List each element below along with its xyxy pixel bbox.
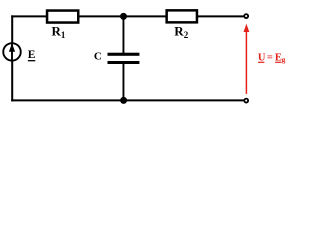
node junction dot bottom [120, 97, 127, 104]
capacitor C bottom plate [108, 61, 140, 64]
resistor R2 [167, 10, 197, 22]
svg-text:R2: R2 [174, 24, 188, 41]
svg-text:g: g [282, 55, 286, 64]
source U1 circle (EMF source E) [3, 43, 21, 61]
wire capacitor branch upper [122, 16, 124, 54]
label E underline [28, 60, 35, 62]
label U underline [258, 61, 264, 63]
voltage arrow U shaft (red) [245, 32, 247, 94]
svg-text:=: = [267, 52, 273, 63]
wire left vertical [11, 15, 13, 101]
terminal bottom right [244, 99, 248, 103]
svg-text:C: C [94, 50, 102, 62]
svg-text:R1: R1 [52, 24, 66, 41]
svg-text:U: U [258, 52, 266, 63]
wire capacitor branch lower [122, 63, 124, 101]
capacitor C top plate [108, 53, 140, 56]
source U1 arrow shaft [11, 43, 13, 61]
svg-text:E: E [28, 49, 36, 61]
voltage arrow U head (red) [244, 24, 250, 32]
source U1 arrowhead [9, 43, 15, 51]
resistor R1 [47, 11, 78, 23]
label E underline (red) [275, 61, 281, 63]
wire bottom [11, 99, 244, 101]
wire top (left corner to right terminal) [11, 15, 244, 17]
node junction dot top [120, 13, 127, 20]
terminal top right [244, 14, 248, 18]
